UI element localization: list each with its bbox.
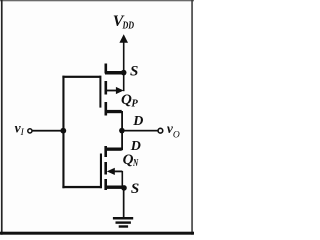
- QP body lead with arrow to source: [105, 90, 117, 92]
- terminal circle vO: [158, 128, 163, 133]
- QP channel top segment: [105, 64, 108, 74]
- svg-text:S: S: [131, 181, 139, 197]
- wire input terminal to junction: [33, 130, 64, 132]
- QP channel middle segment: [105, 81, 108, 95]
- node input junction dot: [60, 128, 66, 134]
- power VDD arrow: [119, 34, 128, 43]
- QP source lead (thick): [105, 71, 124, 75]
- QN source lead (thick): [105, 186, 124, 189]
- QP channel bottom segment: [105, 102, 108, 116]
- QN body-to-source wire: [122, 171, 124, 188]
- QN channel middle segment: [104, 162, 107, 175]
- QP drain lead (thick): [105, 110, 122, 113]
- wire output node down to QN drain: [121, 131, 123, 151]
- ground symbol: [113, 217, 133, 228]
- svg-text:vO: vO: [167, 121, 180, 141]
- QP body-to-source wire: [123, 73, 125, 92]
- wire QN source to ground: [123, 188, 125, 218]
- svg-text:vI: vI: [15, 121, 25, 139]
- node output junction dot: [119, 128, 125, 134]
- border frame (decorative): [0, 0, 194, 235]
- QN body lead with arrow pointing into channel: [107, 168, 115, 175]
- QP gate bar: [99, 76, 101, 108]
- QN drain lead (thick): [105, 148, 122, 151]
- wire VDD to QP source: [123, 42, 125, 73]
- terminal circle vI: [28, 129, 32, 133]
- QN channel top segment: [104, 146, 107, 157]
- wire gate rail: vertical input rail: [62, 76, 64, 189]
- svg-text:VDD: VDD: [113, 13, 135, 31]
- svg-text:QN: QN: [123, 152, 139, 169]
- wire output node to terminal: [122, 130, 158, 132]
- node S junction dot of QN: [121, 185, 127, 191]
- transistor QP (PMOS) body symbol: [99, 64, 124, 116]
- svg-text:QP: QP: [121, 92, 138, 109]
- QN gate bar: [100, 154, 102, 189]
- wire gate rail: QN gate lead: [62, 186, 100, 188]
- wire QP drain down to output node: [121, 111, 123, 131]
- svg-text:D: D: [132, 114, 143, 129]
- node S junction dot of QP: [121, 70, 127, 76]
- QN channel bottom segment: [104, 179, 107, 190]
- transistor QN (NMOS) body symbol: [100, 146, 124, 190]
- wire gate rail: QP gate lead: [62, 76, 100, 78]
- svg-text:S: S: [130, 64, 138, 80]
